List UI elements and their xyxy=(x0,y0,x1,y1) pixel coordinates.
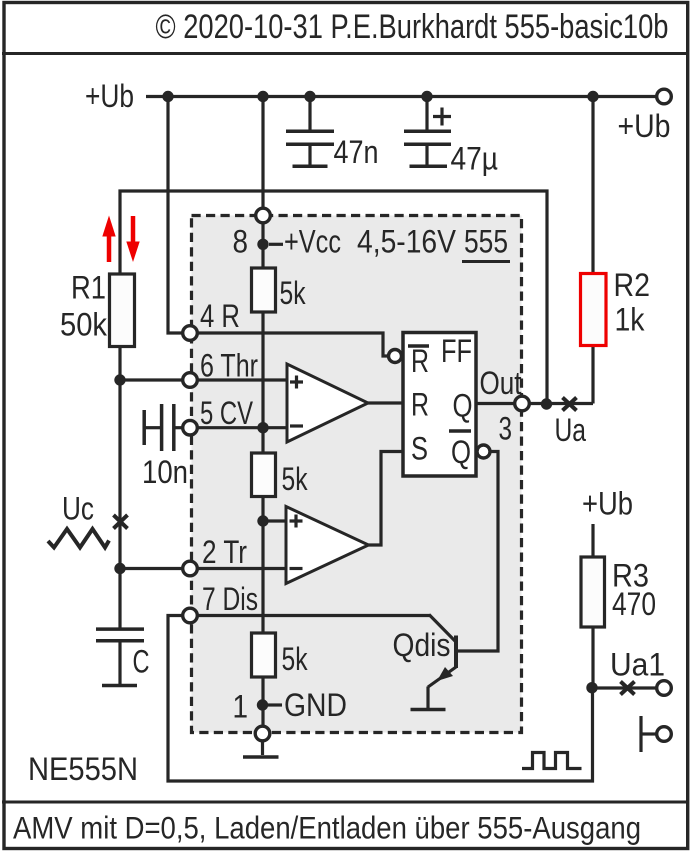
wire C node vertical xyxy=(118,380,121,628)
svg-text:1: 1 xyxy=(233,689,249,725)
wire pin 7 to R3 / Ua1 (bottom loop) xyxy=(168,616,593,782)
FF reset bubble xyxy=(389,350,402,363)
svg-text:R2: R2 xyxy=(614,267,651,303)
capacitor C xyxy=(96,629,144,685)
pin 4 terminal xyxy=(183,326,198,341)
svg-text:8: 8 xyxy=(233,224,249,260)
node rail/R2 xyxy=(587,91,598,102)
svg-text:5k: 5k xyxy=(280,275,307,311)
node pin 1 GND xyxy=(257,699,268,710)
comp2 minus sign xyxy=(290,567,303,570)
svg-text:Ua: Ua xyxy=(555,412,587,448)
node divider/comp2 xyxy=(257,515,268,526)
node rail/R-feed xyxy=(162,91,173,102)
svg-text:Ua1: Ua1 xyxy=(610,647,665,683)
svg-text:© 2020-10-31 P.E.Burkhardt 555: © 2020-10-31 P.E.Burkhardt 555-basic10b xyxy=(156,8,669,46)
capacitor 47µ polarized xyxy=(404,97,451,167)
flip-flop FF box xyxy=(403,333,476,477)
wire R1 bottom to pin 6 xyxy=(120,347,183,381)
wire node to comp2 plus xyxy=(263,519,286,522)
node divider/CV xyxy=(257,422,268,433)
wire rail to pin 8 xyxy=(261,97,264,209)
svg-text:6 Thr: 6 Thr xyxy=(200,348,258,384)
node rail/47n xyxy=(304,91,315,102)
label Rbar input xyxy=(408,343,429,379)
svg-text:Q: Q xyxy=(451,434,471,470)
svg-text:4 R: 4 R xyxy=(200,298,240,334)
wire R2 bottom to out node xyxy=(591,346,594,404)
capacitor 47n xyxy=(286,97,334,167)
wire divider lower segment xyxy=(261,497,264,634)
wire pin 5 to comp1 minus xyxy=(198,426,288,429)
svg-text:1k: 1k xyxy=(615,302,646,338)
current arrow down (red) xyxy=(126,216,139,262)
svg-text:Uc: Uc xyxy=(62,491,94,527)
svg-text:GND: GND xyxy=(284,687,347,723)
svg-text:Qdis: Qdis xyxy=(393,627,451,663)
svg-text:AMV mit D=0,5, Laden/Entladen: AMV mit D=0,5, Laden/Entladen über 555-A… xyxy=(13,810,641,846)
resistor R3 xyxy=(581,557,605,627)
measure mark x on Uc wire xyxy=(114,515,128,529)
return terminal with bar xyxy=(641,716,657,752)
pin 8 stub xyxy=(269,243,283,246)
svg-text:47n: 47n xyxy=(334,134,379,170)
resistor 5k lower xyxy=(252,633,276,677)
wire rail to R2 xyxy=(591,97,594,274)
wire Ua1 node to terminal xyxy=(592,686,657,689)
pin 2 terminal xyxy=(183,561,198,576)
svg-text:NE555N: NE555N xyxy=(28,751,138,787)
resistor 5k middle xyxy=(252,453,276,497)
wire pin 2 to comp2 minus xyxy=(198,567,287,570)
node C/pin2 xyxy=(114,563,125,574)
node Ua1 xyxy=(586,682,597,693)
svg-text:2 Tr: 2 Tr xyxy=(202,534,247,570)
svg-text:Q: Q xyxy=(453,388,473,424)
comparator 2 (trigger) xyxy=(286,507,369,584)
svg-text:Out: Out xyxy=(480,365,522,401)
pin 3 terminal xyxy=(515,396,530,411)
comparator 1 (threshold) xyxy=(287,364,368,442)
svg-text:3: 3 xyxy=(499,411,513,447)
svg-text:S: S xyxy=(411,431,428,467)
transistor Qdis xyxy=(198,615,457,710)
svg-text:50k: 50k xyxy=(60,307,108,343)
wire 5k lower to pin 1 xyxy=(261,677,264,727)
svg-text:555: 555 xyxy=(464,224,508,260)
svg-text:+Ub: +Ub xyxy=(582,486,633,522)
comp1 plus sign xyxy=(290,376,303,389)
label 555 underlined xyxy=(462,224,510,262)
wire R3 to Ua1 node xyxy=(591,627,594,688)
squarewave symbol xyxy=(522,753,582,769)
ground symbol below pin 1 xyxy=(243,741,279,757)
IC body dashed box (555) xyxy=(192,216,522,733)
terminal +Ub (top right) xyxy=(657,89,672,104)
current arrow up (red) xyxy=(102,216,115,263)
wire Qbar to Qdis base xyxy=(458,452,498,652)
resistor R2 (red) xyxy=(581,274,607,346)
+Ub supply rail wire xyxy=(146,95,657,98)
measure mark x on Ua1 xyxy=(621,682,635,695)
node rail/pin8 xyxy=(257,91,268,102)
wire pin 6 to comp1 plus xyxy=(198,378,288,381)
pin 5 terminal xyxy=(183,420,198,435)
svg-text:7 Dis: 7 Dis xyxy=(202,581,258,617)
svg-text:R1: R1 xyxy=(71,270,106,306)
label Qbar output xyxy=(449,431,471,470)
node rail/47µ xyxy=(421,91,432,102)
FF Qbar bubble xyxy=(477,445,490,458)
terminal return xyxy=(657,727,672,742)
measure mark x on Ua xyxy=(563,398,577,411)
svg-text:5k: 5k xyxy=(282,461,309,497)
comp2 plus sign xyxy=(290,515,303,528)
svg-text:47µ: 47µ xyxy=(451,141,499,177)
svg-text:470: 470 xyxy=(612,586,656,622)
svg-text:R: R xyxy=(411,387,429,423)
wire C node to pin 2 xyxy=(120,567,183,570)
svg-text:C: C xyxy=(133,644,150,680)
terminal Ua1 xyxy=(657,681,672,696)
comp1 minus sign xyxy=(290,424,303,427)
svg-text:+Vcc: +Vcc xyxy=(284,224,341,260)
svg-text:FF: FF xyxy=(441,333,472,369)
node pin 8 xyxy=(257,239,268,250)
svg-text:5k: 5k xyxy=(282,641,309,677)
node out/R1-feed xyxy=(541,398,552,409)
pin 1 stub xyxy=(268,703,282,706)
svg-text:10n: 10n xyxy=(142,454,188,490)
wire Q to pin 3 and R2 xyxy=(476,402,593,405)
wire +Ub to R3 xyxy=(591,524,594,557)
caption separator line xyxy=(2,801,689,804)
wire output feedback to R1 (top horizontal) xyxy=(120,191,547,404)
terminal pin 8 on box top xyxy=(256,208,271,223)
wire rail to pin 4 feed xyxy=(168,97,183,334)
svg-text:5 CV: 5 CV xyxy=(200,395,253,431)
pin 7 terminal xyxy=(183,608,198,623)
svg-text:R: R xyxy=(411,343,429,379)
resistor 5k upper xyxy=(252,268,276,312)
wire comp1 out to FF R xyxy=(368,401,403,404)
terminal pin 1 on box bottom xyxy=(255,726,270,741)
svg-text:+Ub: +Ub xyxy=(618,108,671,144)
wire comp2 out to FF S xyxy=(369,452,404,546)
node R1/pin6 xyxy=(114,374,125,385)
wire divider upper segment xyxy=(261,312,264,453)
svg-text:+Ub: +Ub xyxy=(85,78,134,114)
svg-text:4,5-16V: 4,5-16V xyxy=(357,224,457,260)
wire pin 4 to FF reset xyxy=(198,333,390,356)
sawtooth waveform symbol xyxy=(48,529,109,548)
resistor R1 xyxy=(110,274,135,347)
title separator line xyxy=(2,52,689,55)
capacitor 10n xyxy=(144,404,182,451)
wire pin8 internal xyxy=(261,223,264,268)
pin 6 terminal xyxy=(183,373,198,388)
